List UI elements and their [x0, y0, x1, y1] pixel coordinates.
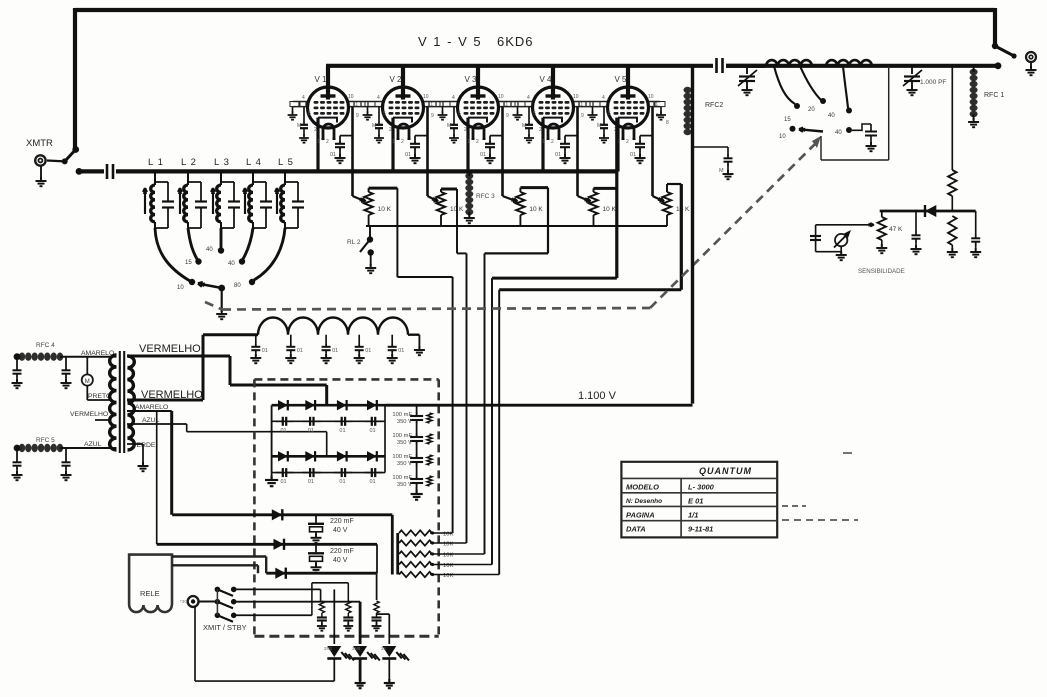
svg-text:V 4: V 4: [540, 75, 553, 84]
svg-text:4: 4: [527, 95, 530, 101]
svg-text:100 mF: 100 mF: [392, 412, 412, 418]
svg-text:L 4: L 4: [246, 157, 262, 168]
svg-text:V 2: V 2: [390, 75, 403, 84]
svg-text:N: Desenho: N: Desenho: [626, 498, 662, 505]
svg-text:1/1: 1/1: [688, 511, 698, 520]
svg-text:PRETO: PRETO: [88, 393, 111, 400]
svg-text:10: 10: [498, 94, 504, 100]
svg-text:220 mF: 220 mF: [330, 518, 354, 525]
svg-text:10: 10: [423, 94, 429, 100]
svg-text:01: 01: [555, 152, 561, 158]
svg-text:9-11-81: 9-11-81: [688, 525, 713, 534]
svg-text:5: 5: [383, 111, 386, 117]
svg-text:5: 5: [533, 111, 536, 117]
svg-text:80: 80: [234, 283, 241, 289]
svg-text:DATA: DATA: [626, 525, 646, 534]
svg-text:2: 2: [401, 139, 404, 145]
svg-text:11: 11: [428, 102, 433, 108]
svg-text:4: 4: [302, 95, 305, 101]
svg-text:01: 01: [308, 479, 314, 485]
svg-text:2: 2: [551, 139, 554, 145]
svg-text:100 mF: 100 mF: [392, 433, 412, 439]
svg-text:VERMELHO: VERMELHO: [139, 343, 201, 355]
svg-text:8: 8: [666, 120, 669, 126]
svg-text:47 K: 47 K: [889, 226, 903, 233]
svg-text:01: 01: [281, 479, 287, 485]
svg-text:2: 2: [626, 139, 629, 145]
svg-text:PAGINA: PAGINA: [626, 511, 655, 520]
svg-text:QUANTUM: QUANTUM: [699, 466, 752, 476]
svg-text:40: 40: [828, 113, 835, 119]
svg-text:V 1 - V 5: V 1 - V 5: [418, 34, 482, 49]
svg-text:M: M: [447, 123, 451, 129]
svg-text:10 K: 10 K: [378, 206, 392, 213]
svg-text:350 V: 350 V: [397, 419, 412, 425]
svg-text:01: 01: [281, 428, 287, 434]
svg-text:RL 2: RL 2: [347, 239, 361, 246]
svg-text:RFC 5: RFC 5: [36, 437, 55, 444]
svg-text:01: 01: [370, 428, 376, 434]
svg-text:01: 01: [297, 348, 303, 354]
svg-text:01: 01: [480, 152, 486, 158]
svg-text:2: 2: [314, 127, 317, 133]
svg-text:100 mF: 100 mF: [392, 475, 412, 481]
svg-text:6KD6: 6KD6: [497, 34, 534, 49]
svg-text:01: 01: [398, 348, 404, 354]
svg-text:RFC 3: RFC 3: [476, 193, 495, 200]
svg-text:5: 5: [608, 111, 611, 117]
svg-text:L 5: L 5: [278, 157, 294, 168]
svg-text:1.100 V: 1.100 V: [578, 390, 617, 402]
svg-text:10: 10: [573, 94, 579, 100]
svg-text:SENSIBILIDADE: SENSIBILIDADE: [858, 268, 905, 275]
svg-text:01: 01: [332, 348, 338, 354]
svg-text:350 V: 350 V: [397, 461, 412, 467]
svg-text:100 mF: 100 mF: [392, 454, 412, 460]
svg-text:M: M: [372, 123, 376, 129]
svg-text:9: 9: [506, 113, 509, 119]
svg-text:10 K: 10 K: [676, 206, 690, 213]
svg-text:2: 2: [476, 139, 479, 145]
svg-text:2N1: 2N1: [324, 646, 333, 651]
svg-text:2: 2: [326, 139, 329, 145]
svg-text:220 mF: 220 mF: [330, 548, 354, 555]
svg-text:L- 3000: L- 3000: [688, 483, 715, 492]
svg-text:L 3: L 3: [214, 157, 230, 168]
svg-text:M: M: [597, 123, 601, 129]
svg-text:RELE: RELE: [140, 589, 160, 598]
svg-text:XMIT / STBY: XMIT / STBY: [203, 623, 247, 632]
svg-text:11: 11: [503, 102, 508, 108]
svg-text:01: 01: [365, 348, 371, 354]
svg-text:10: 10: [177, 285, 184, 291]
svg-text:1.000 PF: 1.000 PF: [920, 79, 946, 86]
svg-text:350 V: 350 V: [397, 482, 412, 488]
svg-text:2K: 2K: [381, 646, 387, 651]
svg-text:01: 01: [330, 152, 336, 158]
svg-text:V 1: V 1: [315, 75, 328, 84]
svg-text:9: 9: [431, 113, 434, 119]
svg-text:RFC 4: RFC 4: [36, 342, 55, 349]
svg-text:11: 11: [353, 102, 358, 108]
svg-text:MODELO: MODELO: [626, 483, 659, 492]
svg-text:40: 40: [835, 130, 842, 136]
svg-text:10: 10: [779, 134, 786, 140]
svg-text:1: 1: [467, 139, 470, 145]
svg-text:L 1: L 1: [148, 157, 164, 168]
svg-text:5: 5: [308, 111, 311, 117]
svg-text:AMARELO: AMARELO: [81, 350, 114, 357]
svg-text:*3C: *3C: [180, 599, 188, 604]
svg-text:1: 1: [542, 139, 545, 145]
svg-text:15: 15: [784, 117, 791, 123]
svg-text:L 2: L 2: [181, 157, 197, 168]
svg-text:01: 01: [630, 152, 636, 158]
svg-text:2: 2: [464, 127, 467, 133]
svg-text:40 V: 40 V: [333, 557, 348, 564]
svg-text:M: M: [85, 379, 90, 385]
svg-text:4: 4: [452, 95, 455, 101]
svg-text:AZUL: AZUL: [84, 441, 102, 448]
svg-text:10 K: 10 K: [529, 206, 543, 213]
svg-text:10: 10: [348, 94, 354, 100]
svg-text:20: 20: [808, 107, 815, 113]
svg-text:5: 5: [458, 111, 461, 117]
svg-text:11: 11: [578, 102, 583, 108]
svg-text:40: 40: [206, 247, 213, 253]
svg-text:RFC 1: RFC 1: [984, 92, 1004, 99]
svg-text:2: 2: [539, 127, 542, 133]
svg-text:AMARELO: AMARELO: [135, 404, 168, 411]
svg-text:01: 01: [308, 428, 314, 434]
svg-text:10: 10: [648, 94, 654, 100]
svg-text:10 K: 10 K: [603, 206, 617, 213]
svg-text:4: 4: [377, 95, 380, 101]
svg-text:9: 9: [356, 113, 359, 119]
svg-text:M: M: [522, 123, 526, 129]
svg-text:01: 01: [262, 348, 268, 354]
svg-text:01: 01: [405, 152, 411, 158]
svg-text:XMTR: XMTR: [26, 138, 53, 149]
svg-text:2: 2: [389, 127, 392, 133]
svg-text:40 V: 40 V: [333, 527, 348, 534]
svg-text:V 3: V 3: [465, 75, 478, 84]
svg-text:1: 1: [317, 139, 320, 145]
svg-text:01: 01: [339, 428, 345, 434]
svg-text:350 V: 350 V: [397, 440, 412, 446]
svg-text:9: 9: [581, 113, 584, 119]
svg-text:VERMELHO: VERMELHO: [70, 411, 108, 418]
svg-text:01: 01: [339, 479, 345, 485]
svg-text:4: 4: [602, 95, 605, 101]
svg-text:15: 15: [185, 260, 192, 266]
svg-text:M: M: [297, 123, 301, 129]
svg-text:M: M: [719, 168, 724, 174]
svg-text:40: 40: [228, 261, 235, 267]
svg-text:1: 1: [392, 139, 395, 145]
svg-text:RFC2: RFC2: [705, 102, 723, 109]
svg-text:V 5: V 5: [615, 75, 628, 84]
svg-text:E 01: E 01: [688, 497, 703, 506]
svg-text:2N8: 2N8: [352, 646, 361, 651]
svg-text:01: 01: [370, 479, 376, 485]
svg-text:VERDE: VERDE: [132, 442, 156, 449]
